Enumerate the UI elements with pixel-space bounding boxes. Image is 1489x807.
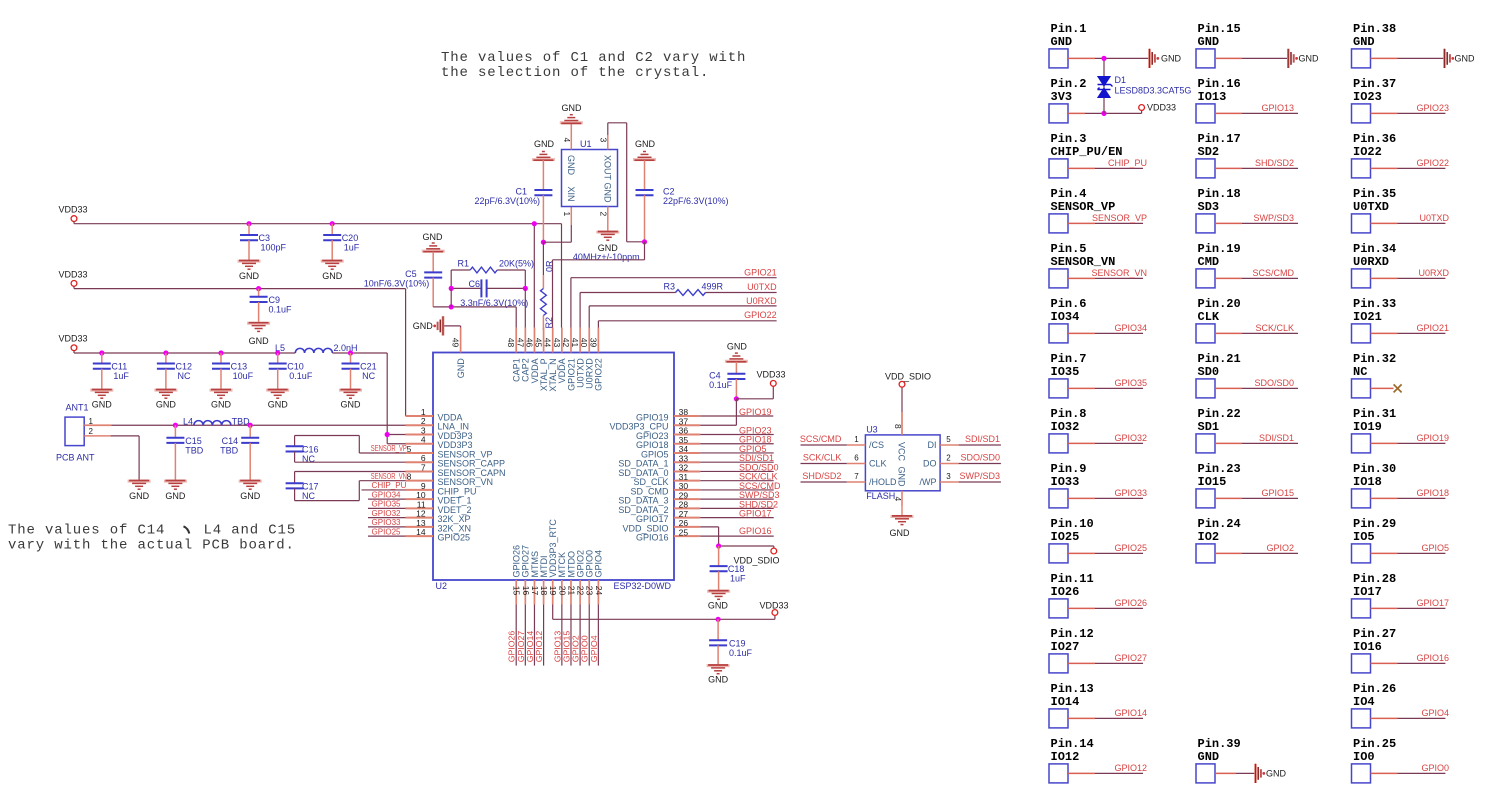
wire Pin.24 net xyxy=(1215,552,1242,554)
ground GND of C9 xyxy=(247,323,270,332)
node junction D1 cathode xyxy=(1101,56,1106,61)
node junction XOUT-C2 xyxy=(642,239,647,244)
svg-text:CHIP_PU: CHIP_PU xyxy=(1108,158,1147,168)
wire Pin.1 to GND xyxy=(1068,57,1095,59)
svg-text:GND: GND xyxy=(240,491,261,501)
power VDD33 right of chip xyxy=(770,381,776,387)
svg-text:SD2: SD2 xyxy=(1198,145,1220,159)
svg-text:L4: L4 xyxy=(183,417,193,427)
power VDD33 at C19 xyxy=(772,610,778,616)
svg-text:IO18: IO18 xyxy=(1353,475,1382,489)
svg-text:GND: GND xyxy=(1266,768,1287,778)
wire GPIO21 net from pin42 xyxy=(570,278,572,328)
svg-text:Pin.7: Pin.7 xyxy=(1051,352,1087,366)
crystal U1 xyxy=(562,150,618,207)
pin 15 of U2 GPIO26 xyxy=(515,580,517,605)
capacitor C2 22pF/6.3V(10%) xyxy=(644,160,646,190)
capacitor C11 1uF xyxy=(101,353,103,364)
pin 8 of U3 VCC xyxy=(901,412,903,435)
svg-text:GPIO0: GPIO0 xyxy=(1421,763,1449,773)
svg-text:IO0: IO0 xyxy=(1353,750,1375,764)
wire Pin.2 to VDD33 xyxy=(1068,112,1085,114)
pin 8 of U2 SENSOR_VN xyxy=(406,480,434,482)
svg-text:SD1: SD1 xyxy=(1198,420,1220,434)
svg-text:Pin.4: Pin.4 xyxy=(1051,187,1087,201)
wire GPIO16 net from pin25 xyxy=(700,535,774,537)
svg-text:VDD33: VDD33 xyxy=(58,205,87,215)
wire SDI/SD1 net xyxy=(959,444,1001,446)
pin 1 of U2 VDDA xyxy=(406,415,434,417)
svg-text:GPIO25: GPIO25 xyxy=(1114,543,1147,553)
svg-text:GND: GND xyxy=(897,467,907,488)
svg-text:CMD: CMD xyxy=(1198,255,1220,269)
svg-text:GPIO17: GPIO17 xyxy=(1416,598,1449,608)
svg-text:VDD_SDIO: VDD_SDIO xyxy=(885,372,931,382)
svg-text:46: 46 xyxy=(524,338,534,348)
svg-text:Pin.13: Pin.13 xyxy=(1051,682,1094,696)
svg-text:40: 40 xyxy=(579,338,589,348)
pin 13 of U2 32K_XN xyxy=(406,526,434,528)
svg-text:GND: GND xyxy=(1299,53,1320,63)
svg-text:23: 23 xyxy=(585,586,595,596)
svg-text:20K(5%): 20K(5%) xyxy=(499,259,534,269)
wire GPIO17 net xyxy=(700,517,774,519)
svg-text:Pin.19: Pin.19 xyxy=(1198,242,1241,256)
ground GND of C15 xyxy=(164,481,187,490)
svg-text:SCS/CMD: SCS/CMD xyxy=(800,434,842,444)
svg-text:Pin.23: Pin.23 xyxy=(1198,462,1241,476)
svg-text:/WP: /WP xyxy=(920,477,937,487)
svg-text:Pin.6: Pin.6 xyxy=(1051,297,1087,311)
wire Pin.8 net xyxy=(1068,442,1095,444)
wire SCS/CMD net xyxy=(700,489,774,491)
wire Pin.29 net xyxy=(1371,552,1398,554)
svg-text:SCK/CLK: SCK/CLK xyxy=(1255,323,1294,333)
svg-text:GND: GND xyxy=(423,232,444,242)
power VDD33 rail2 symbol xyxy=(71,281,77,287)
svg-text:C2: C2 xyxy=(663,187,675,197)
svg-text:IO4: IO4 xyxy=(1353,695,1375,709)
wire rail1 VDD33 horizontal xyxy=(73,222,75,224)
svg-text:1uF: 1uF xyxy=(113,371,129,381)
wire rail3 left segment xyxy=(73,351,75,353)
node junction rail3-C13 xyxy=(218,350,223,355)
wire SENSOR_CAPP pin6 xyxy=(295,461,433,463)
svg-text:C15: C15 xyxy=(185,436,202,446)
svg-text:GPIO4: GPIO4 xyxy=(594,550,604,578)
svg-text:SENSOR_VP: SENSOR_VP xyxy=(371,443,407,453)
wire SDO/SD0 net xyxy=(959,463,1001,465)
svg-text:Pin.35: Pin.35 xyxy=(1353,187,1396,201)
svg-text:IO13: IO13 xyxy=(1198,90,1227,104)
svg-text:SHD/SD2: SHD/SD2 xyxy=(802,471,841,481)
pin 42 of U2 GPIO21 xyxy=(570,328,572,353)
svg-text:Pin.36: Pin.36 xyxy=(1353,132,1396,146)
capacitor C16 NC xyxy=(286,446,304,451)
ground GND of Pin.1 xyxy=(1150,49,1155,68)
svg-text:GPIO27: GPIO27 xyxy=(1114,653,1147,663)
svg-text:GND: GND xyxy=(562,103,583,113)
ground GND of Pin.39 xyxy=(1256,764,1261,783)
svg-text:C14: C14 xyxy=(222,436,239,446)
svg-text:IO35: IO35 xyxy=(1051,365,1080,379)
svg-text:GPIO25: GPIO25 xyxy=(438,533,471,543)
svg-text:SCK/CLK: SCK/CLK xyxy=(803,453,842,463)
wire Pin.32 no-connect xyxy=(1371,387,1394,389)
svg-text:TBD: TBD xyxy=(220,446,239,456)
node junction C6 right xyxy=(523,286,528,291)
wire Pin.9 net xyxy=(1068,497,1095,499)
wire SENSOR_CAPN pin7 loop xyxy=(295,471,433,473)
svg-text:Pin.34: Pin.34 xyxy=(1353,242,1396,256)
svg-text:GPIO16: GPIO16 xyxy=(1416,653,1449,663)
svg-text:IO26: IO26 xyxy=(1051,585,1080,599)
wire XTAL_N from C2 to pin44 xyxy=(644,242,646,260)
pin 23 of U2 GPIO0 xyxy=(588,580,590,605)
wire Pin.13 net xyxy=(1068,717,1095,719)
svg-text:U0TXD: U0TXD xyxy=(747,282,777,292)
svg-text:GPIO4: GPIO4 xyxy=(1421,708,1449,718)
capacitor C15 TBD xyxy=(174,425,176,437)
svg-text:49: 49 xyxy=(451,338,461,348)
power VDD_SDIO above U3 xyxy=(899,381,905,387)
wire GPIO33 net stub xyxy=(368,526,433,528)
wire Pin.27 net xyxy=(1371,662,1398,664)
node junction rail3-C12 xyxy=(163,350,168,355)
wire Pin.14 net xyxy=(1068,772,1095,774)
svg-text:Pin.29: Pin.29 xyxy=(1353,517,1396,531)
wire Pin.7 net xyxy=(1068,387,1095,389)
svg-text:GND: GND xyxy=(566,155,576,176)
svg-text:GPIO21: GPIO21 xyxy=(1416,323,1449,333)
svg-text:0.1uF: 0.1uF xyxy=(729,648,753,658)
wire Pin.28 net xyxy=(1371,607,1398,609)
wire branch junction to pin3 VDD3P3 xyxy=(387,433,433,435)
svg-text:Pin.2: Pin.2 xyxy=(1051,77,1087,91)
svg-text:/HOLD: /HOLD xyxy=(869,477,897,487)
svg-text:GPIO19: GPIO19 xyxy=(739,407,772,417)
svg-text:4: 4 xyxy=(421,435,426,445)
svg-text:Pin.10: Pin.10 xyxy=(1051,517,1094,531)
svg-text:GPIO12: GPIO12 xyxy=(1114,763,1147,773)
svg-text:C21: C21 xyxy=(360,362,377,372)
svg-text:22: 22 xyxy=(576,586,586,596)
power VDD33 at Pin.2 xyxy=(1139,105,1145,111)
svg-text:IO5: IO5 xyxy=(1353,530,1375,544)
wire XIN link to U1 pin1 xyxy=(543,241,571,243)
wire SENSOR_VN pin8 loop xyxy=(295,500,360,502)
svg-text:Pin.9: Pin.9 xyxy=(1051,462,1087,476)
svg-text:0.1uF: 0.1uF xyxy=(269,305,293,315)
svg-text:GPIO22: GPIO22 xyxy=(744,310,777,320)
svg-text:ESP32-D0WD: ESP32-D0WD xyxy=(613,581,671,591)
svg-text:48: 48 xyxy=(506,338,516,348)
pin 43 of U2 VDDA xyxy=(561,328,563,353)
svg-text:3.3nF/6.3V(10%): 3.3nF/6.3V(10%) xyxy=(460,298,528,308)
svg-text:GND: GND xyxy=(1353,35,1375,49)
svg-text:7: 7 xyxy=(421,462,426,472)
wire GPIO22 net from pin39 xyxy=(597,321,599,328)
wire rail3 right segment to pins 3/4 VDD3P3 xyxy=(332,352,387,354)
pin 5 of U2 SENSOR_VP xyxy=(406,452,434,454)
svg-text:GPIO16: GPIO16 xyxy=(739,526,772,536)
capacitor C12 NC xyxy=(165,353,167,364)
pin 6 of U2 SENSOR_CAPP xyxy=(406,461,434,463)
ground GND of C10 xyxy=(266,390,289,399)
resistor R3 499R xyxy=(676,290,706,296)
svg-text:The values of C1 and C2 vary w: The values of C1 and C2 vary with xyxy=(441,50,746,66)
pin 45 of U2 XTAL_P xyxy=(543,328,545,353)
capacitor C21 NC xyxy=(350,353,352,364)
svg-text:42: 42 xyxy=(561,338,571,348)
ground GND left of pin49 xyxy=(438,316,443,335)
wire GPIO2 net from pin 22 xyxy=(579,605,581,666)
capacitor C9 0.1uF xyxy=(258,289,260,297)
pin 31 of U2 SD_CLK xyxy=(674,480,700,482)
node junction rail1-C3 xyxy=(246,221,251,226)
pin 10 of U2 VDET_1 xyxy=(406,498,434,500)
pin 2 of U1 GND xyxy=(607,207,609,232)
svg-text:TBD: TBD xyxy=(185,446,204,456)
svg-text:25: 25 xyxy=(679,527,689,537)
node junction rail3-C11 xyxy=(99,350,104,355)
wire GPIO27 net from pin 16 xyxy=(524,605,526,666)
svg-text:SDO/SD0: SDO/SD0 xyxy=(1254,378,1294,388)
pin 4 of U3 GND xyxy=(901,491,903,507)
svg-text:SD3: SD3 xyxy=(1198,200,1220,214)
pin 9 of U2 CHIP_PU xyxy=(406,489,434,491)
svg-text:C11: C11 xyxy=(111,362,127,372)
svg-text:IO17: IO17 xyxy=(1353,585,1382,599)
node junction D1 anode xyxy=(1101,111,1106,116)
node junction C6 left xyxy=(449,286,454,291)
wire VDD_SDIO net from pin26 xyxy=(700,526,718,528)
svg-text:22pF/6.3V(10%): 22pF/6.3V(10%) xyxy=(663,196,729,206)
pin 30 of U2 SD_CMD xyxy=(674,489,700,491)
svg-text:44: 44 xyxy=(543,338,553,348)
wire Pin.20 net xyxy=(1215,332,1242,334)
wire SHD/SD2 net xyxy=(801,481,847,483)
svg-text:GND: GND xyxy=(602,183,612,204)
svg-text:10uF: 10uF xyxy=(233,371,254,381)
svg-text:VCC: VCC xyxy=(897,442,907,462)
pin 35 of U2 GPIO18 xyxy=(674,443,700,445)
svg-text:SENSOR_VP: SENSOR_VP xyxy=(1092,213,1147,223)
wire Pin.18 net xyxy=(1215,222,1242,224)
pin 2 of U2 LNA_IN xyxy=(406,424,434,426)
wire Pin.26 net xyxy=(1371,717,1398,719)
wire rail1 branch to pin46 VDDA xyxy=(533,224,535,328)
svg-text:Pin.26: Pin.26 xyxy=(1353,682,1396,696)
svg-text:Pin.32: Pin.32 xyxy=(1353,352,1396,366)
wire LNA_IN net xyxy=(111,424,433,426)
wire C4 net down to pin37 VDD3P3_CPU xyxy=(735,399,737,425)
svg-text:U0RXD: U0RXD xyxy=(1353,255,1389,269)
svg-text:GPIO2: GPIO2 xyxy=(1266,543,1294,553)
svg-text:0.1uF: 0.1uF xyxy=(289,371,313,381)
ground GND of C11 xyxy=(90,390,113,399)
svg-text:U0TXD: U0TXD xyxy=(1353,200,1389,214)
svg-text:18: 18 xyxy=(539,586,549,596)
svg-text:14: 14 xyxy=(416,527,426,537)
wire U3 GND down xyxy=(901,506,903,516)
svg-text:GND: GND xyxy=(456,358,466,379)
wire SDO/SD0 net xyxy=(700,470,774,472)
pin 47 of U2 CAP2 xyxy=(524,328,526,353)
wire CHIP_PU net stub xyxy=(362,489,434,491)
svg-text:GND: GND xyxy=(165,491,186,501)
pin 24 of U2 GPIO4 xyxy=(597,580,599,605)
svg-text:GPIO33: GPIO33 xyxy=(1114,488,1147,498)
ground GND of C13 xyxy=(210,390,233,399)
svg-text:GPIO21: GPIO21 xyxy=(744,268,777,278)
svg-text:GPIO14: GPIO14 xyxy=(1114,708,1147,718)
wire XTAL_P to pin45 xyxy=(542,328,544,331)
wire C4 to VDD33 xyxy=(736,398,773,400)
svg-text:GND: GND xyxy=(322,271,343,281)
svg-text:16: 16 xyxy=(521,586,531,596)
power VDD33 rail1 symbol xyxy=(71,216,77,222)
svg-text:VDD33: VDD33 xyxy=(58,334,87,344)
wire CAP1 net C5 to pin48 xyxy=(433,306,516,308)
node junction C18 xyxy=(716,543,721,548)
svg-text:GND: GND xyxy=(249,336,270,346)
svg-text:100pF: 100pF xyxy=(261,243,287,253)
wire U0RXD net from pin40 xyxy=(588,306,590,328)
svg-text:Pin.15: Pin.15 xyxy=(1198,22,1241,36)
pin 3 of U2 VDD3P3 xyxy=(406,433,434,435)
node junction LNA-C15 xyxy=(173,423,178,428)
svg-text:GPIO35: GPIO35 xyxy=(1114,378,1147,388)
wire Pin.15 to GND xyxy=(1215,57,1242,59)
capacitor C17 NC xyxy=(286,483,304,488)
resistor R1 20K(5%) xyxy=(451,269,470,271)
svg-text:8: 8 xyxy=(407,472,412,482)
ground GND of C21 xyxy=(339,390,362,399)
svg-text:IO14: IO14 xyxy=(1051,695,1080,709)
svg-text:GND: GND xyxy=(239,271,260,281)
wire Pin.16 net xyxy=(1215,112,1242,114)
svg-text:GND: GND xyxy=(708,675,729,685)
pin 3 of U1 XOUT xyxy=(607,135,609,150)
svg-text:SD0: SD0 xyxy=(1198,365,1220,379)
svg-text:U0RXD: U0RXD xyxy=(1418,268,1449,278)
svg-text:GPIO19: GPIO19 xyxy=(1416,433,1449,443)
svg-text:GND: GND xyxy=(1455,53,1476,63)
wire SWP/SD3 net xyxy=(700,498,774,500)
pin 49 of U2 GND xyxy=(460,328,462,353)
wire Pin.12 net xyxy=(1068,662,1095,664)
svg-text:Pin.33: Pin.33 xyxy=(1353,297,1396,311)
wire rail2 to pin1 VDDA xyxy=(73,286,75,288)
wire GPIO25 net stub xyxy=(368,535,433,537)
svg-text:GPIO22: GPIO22 xyxy=(1416,158,1449,168)
node junction rail3-C21 xyxy=(348,350,353,355)
wire Pin.25 net xyxy=(1371,772,1398,774)
svg-text:3: 3 xyxy=(946,472,951,481)
svg-text:24: 24 xyxy=(594,586,604,596)
svg-text:8: 8 xyxy=(893,424,903,429)
svg-text:GND: GND xyxy=(1051,35,1073,49)
svg-text:R1: R1 xyxy=(457,259,469,269)
ground GND of C19 xyxy=(707,665,730,674)
svg-text:IO2: IO2 xyxy=(1198,530,1220,544)
pin 19 of U2 VDD3P3_RTC xyxy=(552,580,554,605)
svg-text:19: 19 xyxy=(548,586,558,596)
pin 3 of U3 /WP xyxy=(940,481,959,483)
capacitor C18 1uF xyxy=(718,546,720,566)
chip U3 FLASH body xyxy=(865,435,940,491)
svg-text:4: 4 xyxy=(562,138,572,143)
wire VCC to VDD_SDIO xyxy=(901,387,903,412)
svg-text:15: 15 xyxy=(512,586,522,596)
svg-text:GPIO4: GPIO4 xyxy=(589,635,599,662)
node junction C5-C6 xyxy=(449,304,454,309)
pin 4 of U2 VDD3P3 xyxy=(406,443,434,445)
ground GND of C20 xyxy=(321,261,344,270)
pin 38 of U2 GPIO19 xyxy=(674,415,700,417)
svg-text:SENSOR_VN: SENSOR_VN xyxy=(1091,268,1147,278)
pin 26 of U2 VDD_SDIO xyxy=(674,526,700,528)
svg-text:FLASH: FLASH xyxy=(866,491,895,501)
wire Pin.3 net xyxy=(1068,167,1095,169)
node junction rail1-pin46 xyxy=(532,221,537,226)
wire Pin.37 net xyxy=(1371,112,1398,114)
svg-text:3V3: 3V3 xyxy=(1051,90,1073,104)
wire Pin.39 to GND xyxy=(1215,772,1236,774)
svg-text:2: 2 xyxy=(946,454,951,463)
svg-text:Pin.31: Pin.31 xyxy=(1353,407,1396,421)
svg-text:5: 5 xyxy=(407,444,412,454)
svg-text:IO23: IO23 xyxy=(1353,90,1382,104)
wire GPIO26 net from pin 15 xyxy=(515,605,517,666)
svg-text:SCS/CMD: SCS/CMD xyxy=(1252,268,1294,278)
svg-text:22pF/6.3V(10%): 22pF/6.3V(10%) xyxy=(474,196,540,206)
svg-text:10nF/6.3V(10%): 10nF/6.3V(10%) xyxy=(364,279,430,289)
svg-text:1: 1 xyxy=(562,212,572,217)
svg-text:SENSOR_VP: SENSOR_VP xyxy=(1051,200,1116,214)
resistor R2 0R xyxy=(542,242,544,275)
wire Pin.4 net xyxy=(1068,222,1095,224)
svg-text:U1: U1 xyxy=(580,139,592,149)
svg-text:GND: GND xyxy=(534,139,555,149)
ground GND of C3 xyxy=(238,261,261,270)
svg-text:39: 39 xyxy=(588,338,598,348)
svg-text:C5: C5 xyxy=(405,269,417,279)
svg-text:GND: GND xyxy=(268,400,289,410)
wire SDI/SD1 net xyxy=(700,461,774,463)
svg-text:GND: GND xyxy=(1198,750,1220,764)
svg-text:GPIO15: GPIO15 xyxy=(1261,488,1294,498)
wire SHD/SD2 net xyxy=(700,507,774,509)
svg-text:SENSOR_VN: SENSOR_VN xyxy=(1051,255,1116,269)
svg-text:U2: U2 xyxy=(436,581,448,591)
wire GPIO18 net xyxy=(700,443,774,445)
wire Pin.21 net xyxy=(1215,387,1242,389)
svg-text:LESD8D3.3CAT5G: LESD8D3.3CAT5G xyxy=(1115,86,1192,96)
svg-text:Pin.18: Pin.18 xyxy=(1198,187,1241,201)
svg-text:Pin.3: Pin.3 xyxy=(1051,132,1087,146)
svg-text:GND: GND xyxy=(635,139,656,149)
pin 17 of U2 MTMS xyxy=(533,580,535,605)
svg-text:GND: GND xyxy=(211,400,232,410)
svg-text:NC: NC xyxy=(1353,365,1367,379)
svg-text:C6: C6 xyxy=(468,279,480,289)
svg-text:C17: C17 xyxy=(302,482,319,492)
svg-text:1uF: 1uF xyxy=(730,574,746,584)
svg-text:DO: DO xyxy=(923,459,937,469)
pin 2 of U3 DO xyxy=(940,463,959,465)
